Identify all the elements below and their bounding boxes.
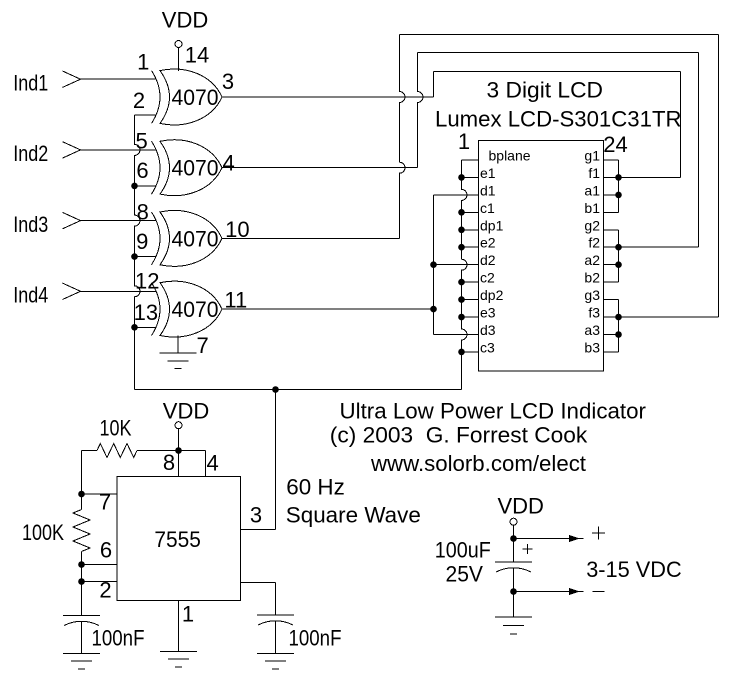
pin name b1 [584, 200, 600, 216]
svg-text:b2: b2 [584, 270, 600, 286]
wire output 11 [222, 308, 434, 310]
svg-text:c2: c2 [480, 270, 495, 286]
wire right group3 bus [618, 300, 620, 352]
junction dot e3 [458, 314, 465, 321]
wire c2 stub [462, 281, 479, 283]
svg-text:100K: 100K [22, 520, 64, 545]
junction dot a3 [615, 331, 622, 338]
pin name c3 [480, 339, 495, 355]
svg-text:(c) 2003 G. Forrest Cook: (c) 2003 G. Forrest Cook [330, 423, 589, 448]
wire Ind2 to gate pin [81, 149, 156, 151]
svg-text:8: 8 [163, 450, 175, 475]
svg-text:b1: b1 [584, 200, 600, 216]
junction dot a1 [615, 192, 622, 199]
svg-text:100nF: 100nF [289, 626, 342, 651]
svg-text:Ind3: Ind3 [13, 212, 48, 237]
text 3-15 VDC [586, 557, 682, 582]
wire pin1 [178, 601, 180, 652]
text Ultra Low Power LCD Indicator [340, 399, 647, 424]
wire f3 stub [604, 316, 619, 318]
junction dot dp1 [458, 227, 465, 234]
svg-text:10K: 10K [100, 415, 132, 440]
wire net3 top horizontal [434, 71, 681, 73]
svg-text:100uF: 100uF [435, 537, 491, 562]
junction dot + rail [510, 535, 517, 542]
svg-text:25V: 25V [446, 562, 484, 587]
wire g3 stub [604, 299, 619, 301]
wire dp2 stub [462, 299, 479, 301]
wire net4 to f2 [619, 246, 699, 248]
junction dot pin13 [131, 324, 138, 331]
svg-text:c1: c1 [480, 200, 495, 216]
pin label 2 [133, 88, 145, 113]
node Ind2 label [13, 141, 48, 166]
wire net10 top horizontal [400, 34, 719, 36]
capacitor C3 100uF plus mark [523, 544, 533, 554]
svg-text:3: 3 [222, 69, 234, 94]
svg-text:g2: g2 [584, 217, 600, 233]
pin label 9 [136, 229, 148, 254]
wire pin3 output [241, 390, 276, 530]
svg-text:Square Wave: Square Wave [286, 503, 421, 528]
wire f2 stub [604, 246, 619, 248]
svg-text:VDD: VDD [163, 398, 209, 423]
pin label 1 (LCD) [458, 129, 470, 154]
wire net3 right vertical [680, 72, 682, 178]
input arrow Ind4 [63, 283, 81, 299]
svg-text:d2: d2 [480, 252, 496, 268]
svg-text:Ind1: Ind1 [13, 70, 48, 95]
wire net10 right vertical [718, 35, 720, 318]
wire bottom horizontal (backplane net) [135, 389, 462, 391]
wire left rail lower [81, 552, 83, 616]
svg-text:8: 8 [137, 199, 149, 224]
wire main LCD bus [462, 160, 468, 390]
wire dp1 stub [462, 229, 479, 231]
xor gate U1B 4070 [152, 140, 223, 196]
junction dot f3 [615, 314, 622, 321]
wire bplane stub [462, 159, 479, 161]
node Ind1 label [13, 70, 48, 95]
junction dot pin9 [131, 253, 138, 260]
wire pin6 stub [82, 564, 118, 566]
svg-text:7555: 7555 [154, 527, 201, 552]
svg-text:3-15 VDC: 3-15 VDC [586, 557, 682, 582]
svg-text:Ind2: Ind2 [13, 141, 48, 166]
svg-text:1: 1 [458, 129, 470, 154]
wire f1 stub [604, 176, 619, 178]
wire input bus vertical [135, 115, 141, 389]
wire a1 stub [604, 194, 619, 196]
pin name g1 [584, 148, 600, 164]
wire right group1 bus [618, 160, 620, 212]
pin label 6 [136, 158, 148, 183]
value label 10K [100, 415, 132, 440]
junction dot d2 [430, 261, 437, 268]
wire d2 stub [434, 264, 479, 266]
pin name dp1 [480, 217, 504, 233]
svg-text:a1: a1 [584, 182, 600, 198]
wire a2 stub [604, 264, 619, 266]
svg-text:bplane: bplane [489, 148, 531, 164]
svg-text:1: 1 [137, 49, 149, 74]
wire net4 top horizontal [418, 52, 699, 54]
svg-text:6: 6 [100, 538, 112, 563]
resistor R1 10K [82, 444, 179, 458]
svg-text:4: 4 [222, 151, 234, 176]
svg-text:f1: f1 [588, 165, 600, 181]
wire b2 stub [604, 281, 619, 283]
input arrow Ind2 [63, 142, 81, 158]
wire b3 stub [604, 351, 619, 353]
pin name f1 [588, 165, 600, 181]
pin label 1 (7555) [182, 602, 194, 627]
junction dot pin6 [131, 183, 138, 190]
text www.solorb.com/elect [370, 451, 586, 476]
wire Ind3 to gate pin [81, 220, 156, 222]
pin label 13 [134, 300, 158, 325]
svg-text:VDD: VDD [162, 8, 208, 33]
plus terminal mark [592, 527, 605, 540]
pin label 8 [137, 199, 149, 224]
svg-text:1: 1 [182, 602, 194, 627]
junction dot a2 [615, 261, 622, 268]
pin name c2 [480, 270, 495, 286]
node Ind3 label [13, 212, 48, 237]
svg-text:4070: 4070 [172, 226, 219, 251]
pin name a2 [584, 252, 600, 268]
pin name g2 [584, 217, 600, 233]
pin label 1 [137, 49, 149, 74]
pin label 5 [135, 128, 147, 153]
junction dot c1 [458, 209, 465, 216]
svg-text:24: 24 [603, 132, 627, 157]
pin label 7 (4070) [196, 333, 208, 358]
value label 25V [446, 562, 484, 587]
svg-text:2: 2 [133, 88, 145, 113]
junction dot f2 [615, 244, 622, 251]
capacitor C1 100nF [63, 616, 100, 626]
svg-text:d3: d3 [480, 322, 496, 338]
wire c1 stub [462, 211, 479, 213]
pin name e1 [480, 165, 496, 181]
wire d3 stub [434, 334, 479, 336]
xor gate U1D 4070 [152, 281, 223, 337]
pin label 7 (7555) [99, 490, 111, 515]
wire net4 vertical [418, 53, 424, 168]
input arrow Ind3 [63, 212, 81, 228]
text 7555 [154, 527, 201, 552]
pin label 8 (7555) [163, 450, 175, 475]
wire pin9 stub [135, 256, 156, 258]
svg-text:Ind4: Ind4 [13, 283, 48, 308]
wire pin13 stub [135, 326, 156, 328]
wire net3 vertical+top [433, 72, 435, 98]
wire d-bus vertical [433, 195, 435, 335]
svg-text:3 Digit LCD: 3 Digit LCD [487, 78, 604, 103]
wire pin8 [178, 451, 180, 477]
svg-text:4: 4 [206, 451, 218, 476]
wire e2 stub [462, 246, 479, 248]
input arrow Ind1 [63, 71, 81, 87]
wire d1 stub [434, 194, 479, 196]
wire a3 stub [604, 334, 619, 336]
svg-text:3: 3 [250, 503, 262, 528]
wire pin2 stub [135, 114, 156, 116]
value label 100nF (C2) [289, 626, 342, 651]
pin name e3 [480, 305, 496, 321]
pin label 4 (7555) [206, 451, 218, 476]
svg-text:100nF: 100nF [92, 626, 145, 651]
capacitor C3 100uF [495, 562, 532, 617]
svg-text:VDD: VDD [497, 494, 543, 519]
pin label 24 (LCD) [603, 132, 627, 157]
svg-text:9: 9 [136, 229, 148, 254]
svg-text:6: 6 [136, 158, 148, 183]
svg-text:Ultra Low Power LCD Indicator: Ultra Low Power LCD Indicator [340, 399, 647, 424]
junction dot pin2 [78, 578, 85, 585]
pin label 4 [222, 151, 234, 176]
pin label 6 (7555) [100, 538, 112, 563]
pin name e2 [480, 235, 496, 251]
svg-text:g3: g3 [584, 287, 600, 303]
wire e3 stub [462, 316, 479, 318]
wire net4 right vertical [698, 53, 700, 248]
junction dot - rail [510, 588, 517, 595]
svg-text:4070: 4070 [172, 297, 219, 322]
svg-text:e2: e2 [480, 235, 496, 251]
wire right group2 bus [618, 230, 620, 282]
wire b1 stub [604, 211, 619, 213]
junction dot pin6 [78, 561, 85, 568]
svg-text:4070: 4070 [172, 85, 219, 110]
junction dot e1 [458, 174, 465, 181]
svg-text:7: 7 [196, 333, 208, 358]
wire g2 stub [604, 229, 619, 231]
ground (C3) [495, 617, 532, 634]
pin name f3 [588, 305, 600, 321]
value label 100K [22, 520, 64, 545]
svg-text:dp2: dp2 [480, 287, 504, 303]
pin name c1 [480, 200, 495, 216]
pin name f2 [588, 235, 600, 251]
text 60 Hz [286, 475, 345, 500]
pin name d1 [480, 182, 496, 198]
capacitor C2 100nF [257, 615, 294, 625]
wire left rail upper [81, 451, 83, 510]
junction dot backplane/7555 out [272, 386, 279, 393]
ground (4070 pin 7) [160, 336, 197, 369]
wire g1 stub [604, 159, 619, 161]
junction dot e2 [458, 244, 465, 251]
wire to + terminal [514, 535, 584, 542]
svg-text:g1: g1 [584, 148, 600, 164]
svg-text:e3: e3 [480, 305, 496, 321]
power symbol VDD (supply) [497, 494, 543, 562]
svg-text:www.solorb.com/elect: www.solorb.com/elect [370, 451, 586, 476]
pin name d3 [480, 322, 496, 338]
pin name b2 [584, 270, 600, 286]
svg-text:a2: a2 [584, 252, 600, 268]
svg-text:d1: d1 [480, 182, 496, 198]
svg-text:4070: 4070 [172, 156, 219, 181]
ground (C2) [257, 621, 294, 669]
wire pin4 [179, 451, 206, 477]
svg-text:2: 2 [99, 578, 111, 603]
junction dot c2 [458, 279, 465, 286]
junction dot c3 [458, 349, 465, 356]
wire pin2 stub [82, 581, 118, 583]
timer U3 7555 box [117, 477, 241, 601]
svg-text:5: 5 [135, 128, 147, 153]
pin name g3 [584, 287, 600, 303]
pin label 2 (7555) [99, 578, 111, 603]
resistor R2 100K [73, 510, 90, 552]
wire e1 stub [462, 176, 479, 178]
wire output 10 [222, 237, 400, 239]
pin name d2 [480, 252, 496, 268]
svg-text:c3: c3 [480, 339, 495, 355]
text Square Wave [286, 503, 421, 528]
wire net3 to f1 [619, 176, 681, 178]
pin name bplane [489, 148, 531, 164]
minus terminal mark [593, 591, 605, 593]
wire pin6 stub [135, 185, 156, 187]
pin name a1 [584, 182, 600, 198]
ground (C1) [63, 621, 100, 669]
pin label 11 [224, 288, 247, 313]
wire output 3 [222, 96, 434, 98]
pin label 14 [185, 43, 209, 68]
svg-text:7: 7 [99, 490, 111, 515]
wire Ind4 to gate pin [81, 290, 156, 292]
text Lumex LCD-S301C31TR [435, 107, 682, 132]
svg-text:60 Hz: 60 Hz [286, 475, 345, 500]
pin name b3 [584, 339, 600, 355]
svg-text:14: 14 [185, 43, 209, 68]
IC U2 3-digit LCD box [479, 141, 604, 372]
value label 100uF [435, 537, 491, 562]
wire output 4 [222, 167, 418, 169]
power symbol VDD (top) [162, 8, 208, 72]
svg-text:f2: f2 [588, 235, 600, 251]
svg-text:f3: f3 [588, 305, 600, 321]
junction dot VDD/R1/pins 8-4 [175, 447, 182, 454]
wire c3 stub [462, 351, 479, 353]
text 3 Digit LCD [487, 78, 604, 103]
pin label 3 (7555) [250, 503, 262, 528]
junction dot net11/d-bus [430, 306, 437, 313]
pin label 10 [225, 217, 249, 242]
xor gate U1A 4070 [152, 69, 223, 125]
pin name a3 [584, 322, 600, 338]
svg-text:dp1: dp1 [480, 217, 504, 233]
svg-text:e1: e1 [480, 165, 496, 181]
pin name dp2 [480, 287, 504, 303]
text (c) 2003 G. Forrest Cook [330, 423, 589, 448]
ground (7555 pin1) [160, 652, 197, 667]
value label 100nF (C1) [92, 626, 145, 651]
power symbol VDD (7555) [163, 398, 209, 450]
svg-text:13: 13 [134, 300, 158, 325]
wire pin5 to C2 [241, 583, 276, 616]
pin label 3 [222, 69, 234, 94]
junction dot f1 [615, 174, 622, 181]
junction dot pin7 [78, 491, 85, 498]
wire pin7 stub [82, 493, 118, 495]
junction dot dp2 [458, 296, 465, 303]
svg-text:a3: a3 [584, 322, 600, 338]
wire net10 vertical [400, 35, 406, 239]
xor gate U1C 4070 [152, 210, 223, 266]
svg-text:Lumex LCD-S301C31TR: Lumex LCD-S301C31TR [435, 107, 682, 132]
wire net10 to f3 [619, 316, 719, 318]
wire Ind1 to gate pin [81, 78, 156, 80]
svg-text:b3: b3 [584, 339, 600, 355]
wire to - terminal [514, 588, 584, 595]
pin label 12 [135, 269, 159, 294]
node Ind4 label [13, 283, 48, 308]
